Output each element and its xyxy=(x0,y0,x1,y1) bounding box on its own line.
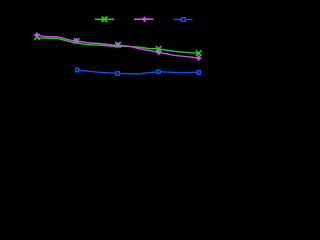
legend blue square marker xyxy=(181,18,185,22)
green marker 4 xyxy=(156,46,162,52)
blue marker 2 xyxy=(116,72,119,75)
legend green x marker xyxy=(102,17,108,23)
green series line xyxy=(37,38,199,54)
legend magenta diamond marker xyxy=(142,17,147,22)
legend green handle line xyxy=(95,18,114,20)
green marker 3 xyxy=(115,42,121,48)
magenta marker 3 xyxy=(115,42,120,48)
green marker 1 xyxy=(34,34,40,40)
magenta marker 5 xyxy=(196,55,201,61)
chart canvas xyxy=(0,0,210,127)
blue series line xyxy=(77,70,199,74)
legend blue handle line xyxy=(173,19,192,21)
magenta series line xyxy=(37,35,199,58)
blue marker 3 xyxy=(157,70,160,73)
green marker 2 xyxy=(74,38,80,44)
magenta marker 4 xyxy=(156,50,161,56)
legend magenta handle line xyxy=(134,18,154,20)
blue marker 1 xyxy=(76,68,79,71)
blue marker 4 xyxy=(197,71,200,74)
green marker 5 xyxy=(196,51,202,57)
magenta marker 1 xyxy=(34,32,39,38)
magenta marker 2 xyxy=(74,38,79,44)
